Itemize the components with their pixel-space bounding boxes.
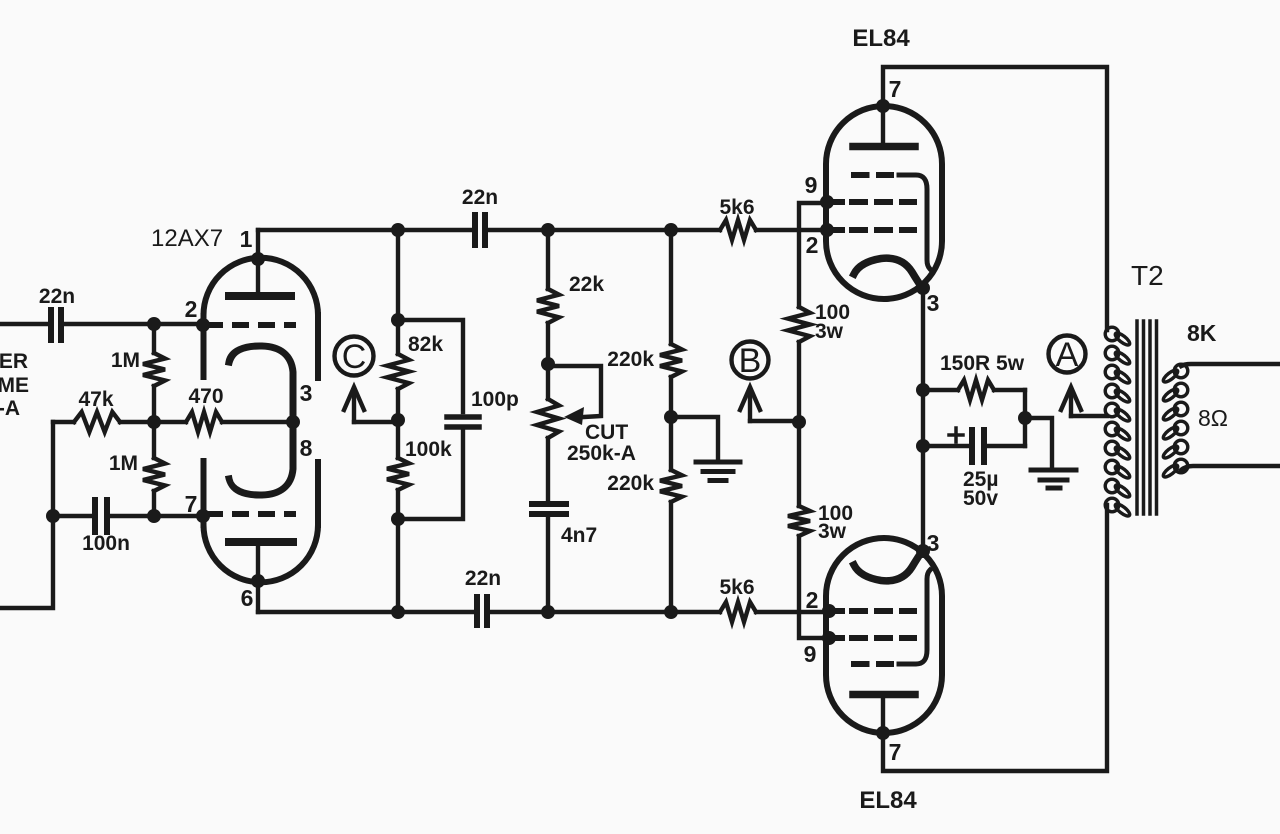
node pin7 bottom (876, 726, 890, 740)
node pin7 top (876, 99, 890, 113)
svg-text:3: 3 (927, 290, 940, 316)
svg-text:220k: 220k (607, 472, 654, 495)
node pin2 top (820, 223, 834, 237)
wire top rail (258, 228, 827, 232)
wire plate supply bottom (883, 505, 1107, 771)
node rail 671 (664, 223, 678, 237)
svg-text:1M: 1M (111, 349, 140, 372)
probe C (335, 337, 399, 423)
svg-text:150R 5w: 150R 5w (940, 352, 1025, 375)
resistor 82k (387, 354, 409, 389)
svg-text:9: 9 (804, 641, 817, 667)
wire secondary bottom (1181, 466, 1280, 470)
node pin3 top (916, 281, 930, 295)
wire to pin7 (154, 514, 203, 518)
node 100k bottom (391, 512, 405, 526)
node ground tap (664, 410, 678, 424)
svg-text:7: 7 (889, 76, 902, 102)
wire screens branch (799, 203, 829, 638)
svg-text:2: 2 (806, 232, 819, 258)
svg-text:47k: 47k (78, 388, 113, 411)
svg-text:EL84: EL84 (859, 787, 917, 814)
wire cathodes (921, 288, 925, 551)
svg-text:12AX7: 12AX7 (151, 225, 223, 252)
svg-text:8: 8 (300, 435, 313, 461)
plate EL84 bottom (853, 695, 915, 734)
probe A (1049, 336, 1108, 417)
node C point (391, 413, 405, 427)
svg-text:82k: 82k (408, 333, 443, 356)
capacitor 4n7 (532, 504, 566, 514)
resistor 100 3w bottom (788, 506, 810, 536)
node pin1 (251, 252, 265, 266)
node pin9 top (820, 195, 834, 209)
plate upper 12AX7 (229, 259, 291, 296)
cathode EL84 top (854, 258, 923, 289)
node pins 3-8 (286, 415, 300, 429)
plate lower 12AX7 (229, 542, 293, 581)
ground right (1025, 418, 1076, 488)
tube EL84 top envelope (826, 106, 942, 299)
wire plate supply top (883, 67, 1107, 330)
svg-text:EL84: EL84 (852, 25, 910, 52)
wire bottom rail (258, 610, 829, 614)
capacitor 25u 50v (923, 428, 1025, 462)
resistor 1M upper (143, 324, 165, 422)
svg-text:250k-A: 250k-A (567, 442, 636, 465)
transformer T2 core (1137, 321, 1157, 514)
node grid junction (147, 415, 161, 429)
wire branch 548 (546, 230, 550, 612)
resistor 47k (53, 412, 154, 432)
svg-text:22k: 22k (569, 273, 604, 296)
resistor 100k (387, 458, 409, 490)
cathode EL84 bottom (854, 550, 923, 581)
svg-text:MASTER: MASTER (0, 350, 28, 373)
svg-text:470: 470 (188, 385, 223, 408)
node pin2 bottom (822, 604, 836, 618)
potentiometer CUT 250k-A (537, 366, 601, 438)
plate EL84 top (853, 106, 915, 147)
grid2 EL84 bottom (828, 635, 917, 641)
node rail 548 (541, 223, 555, 237)
svg-text:100p: 100p (471, 388, 519, 411)
svg-text:C: C (342, 338, 367, 376)
node pin3 bottom (916, 544, 930, 558)
svg-text:3: 3 (300, 380, 313, 406)
svg-text:100k: 100k (405, 438, 452, 461)
wire input top (0, 322, 48, 326)
ground center (671, 417, 740, 481)
svg-text:22n: 22n (465, 567, 501, 590)
svg-text:8K: 8K (1187, 320, 1217, 346)
wire to pin2 (154, 322, 203, 326)
wire secondary top (1181, 364, 1280, 366)
resistor 220k bottom (660, 470, 682, 502)
svg-text:VOLUME: VOLUME (0, 374, 29, 397)
svg-text:22n: 22n (462, 186, 498, 209)
node 82k top (391, 313, 405, 327)
wire pin6 (256, 581, 260, 612)
svg-text:4n7: 4n7 (561, 524, 597, 547)
node brail 398 (391, 605, 405, 619)
grid upper 12AX7 dashed (206, 322, 296, 328)
svg-text:1: 1 (240, 226, 253, 252)
node rail 398 (391, 223, 405, 237)
grid1 EL84 top (828, 227, 917, 233)
grid2 EL84 top (828, 199, 917, 205)
tube EL84 bottom envelope (826, 538, 942, 733)
cathode upper 12AX7 (229, 346, 293, 416)
node junction input (147, 317, 161, 331)
capacitor 22n top (475, 215, 485, 245)
wire feedback left (0, 422, 53, 608)
resistor 220k top (660, 344, 682, 377)
svg-text:100n: 100n (82, 532, 130, 555)
node brail 548 (541, 605, 555, 619)
transformer T2 primary (1105, 327, 1131, 518)
probe B (732, 342, 800, 422)
resistor 100 3w top (788, 307, 810, 342)
svg-text:6: 6 (241, 585, 254, 611)
svg-text:T2: T2 (1131, 260, 1164, 291)
svg-text:22n: 22n (39, 285, 75, 308)
svg-text:B: B (739, 342, 762, 380)
capacitor 100n (53, 500, 154, 532)
resistor 1M lower (143, 422, 165, 516)
svg-text:8Ω: 8Ω (1198, 405, 1228, 431)
svg-text:50v: 50v (963, 487, 998, 510)
resistor 150R 5w (923, 380, 1025, 400)
node cap junction (147, 509, 161, 523)
wire branch 398 (396, 230, 400, 612)
svg-text:5k6: 5k6 (719, 576, 754, 599)
svg-text:1M: 1M (109, 452, 138, 475)
cathode lower 12AX7 (229, 427, 293, 495)
node pin6 (251, 574, 265, 588)
grid1 EL84 bottom (828, 608, 917, 614)
node pin7 wall (196, 509, 210, 523)
node pin2 wall (196, 318, 210, 332)
svg-text:3w: 3w (815, 320, 844, 343)
grid3 EL84 bottom (851, 570, 930, 664)
resistor 5k6 bottom (720, 602, 756, 622)
resistor 5k6 top (720, 220, 756, 240)
capacitor 100p (398, 320, 479, 519)
capacitor 22n bottom (477, 597, 487, 625)
svg-text:7: 7 (185, 491, 198, 517)
svg-text:5k6: 5k6 (719, 196, 754, 219)
resistor 22k (537, 289, 559, 323)
tube 12AX7 envelope (204, 258, 319, 583)
svg-text:A: A (1056, 336, 1079, 374)
svg-text:9: 9 (805, 172, 818, 198)
svg-text:2: 2 (806, 587, 819, 613)
node feedback (46, 509, 60, 523)
svg-text:CUT: CUT (585, 421, 628, 444)
capacitor 22n input (51, 310, 154, 340)
node 150R tap (916, 383, 930, 397)
svg-text:3: 3 (927, 530, 940, 556)
node ground2 tap (1018, 411, 1032, 425)
svg-text:220k: 220k (607, 348, 654, 371)
grid lower 12AX7 dashed (206, 511, 296, 517)
wire branch 671 (669, 230, 673, 612)
resistor 470 (154, 412, 293, 432)
node cap tap (916, 439, 930, 453)
wire pin1 (256, 230, 260, 259)
svg-text:3w: 3w (818, 520, 847, 543)
svg-text:7: 7 (889, 739, 902, 765)
svg-text:250k-A: 250k-A (0, 397, 20, 420)
node pot top (541, 357, 555, 371)
node B point (792, 415, 806, 429)
grid3 EL84 top (851, 175, 930, 269)
node pin9 bottom (822, 631, 836, 645)
node brail 671 (664, 605, 678, 619)
transformer T2 secondary (1162, 364, 1188, 479)
svg-text:2: 2 (185, 296, 198, 322)
wire 150R right (1023, 390, 1027, 446)
